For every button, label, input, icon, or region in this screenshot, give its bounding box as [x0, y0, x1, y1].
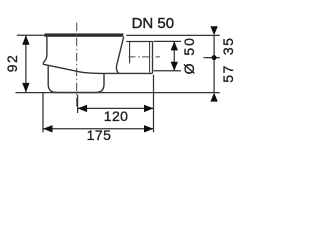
- dim 120: left extension line: [77, 95, 79, 113]
- svg-text:57: 57: [220, 64, 236, 82]
- dim 35/57: dimension line: [213, 35, 215, 92]
- dim 92: bottom extension line (long, to right dim): [16, 92, 220, 94]
- svg-text:35: 35: [220, 37, 236, 55]
- dim ø50: down arrow: [171, 62, 178, 71]
- outlet socket collar line: [129, 42, 131, 64]
- svg-text:120: 120: [104, 108, 129, 124]
- dim 92: top extension line: [17, 34, 45, 36]
- body right slanted edge: [116, 37, 123, 73]
- dim ø50: top extension line: [154, 40, 182, 42]
- dim 175: right arrow: [144, 125, 154, 132]
- dim 120: left arrow: [78, 105, 88, 112]
- drain body top grate bar: [45, 33, 124, 36]
- outlet pipe top line: [126, 41, 153, 43]
- extension line at grate level to right dimension: [126, 34, 220, 36]
- dim 120: dimension line: [78, 107, 154, 109]
- dim 120: right arrow: [144, 105, 154, 112]
- svg-text:DN 50: DN 50: [132, 15, 175, 32]
- dim 35/57: axis dot: [212, 55, 217, 60]
- pipe center line (dash-dot): [129, 56, 161, 58]
- dim 175: left extension line: [42, 93, 44, 132]
- svg-text:175: 175: [87, 127, 112, 143]
- dim 35/57: top arrow (points down): [210, 26, 217, 35]
- dim 92: top arrow: [22, 35, 29, 45]
- dim 35/57: bottom arrow (points up): [210, 93, 217, 102]
- dim 35/57: level mark at pipe axis: [204, 57, 220, 59]
- pipe end chamfer line: [149, 42, 151, 73]
- svg-text:92: 92: [4, 54, 20, 72]
- dim ø50: stem: [173, 41, 175, 70]
- dim 175: left arrow: [43, 125, 53, 132]
- dim ø50: up arrow: [171, 41, 178, 50]
- body left edge and sloped channel bottom: [43, 37, 152, 74]
- dim 175: dimension line: [43, 128, 154, 130]
- pipe end face: [152, 42, 154, 74]
- svg-text:Ø 50: Ø 50: [181, 36, 197, 74]
- odour trap (lower box): [48, 66, 104, 93]
- dim 92: bottom arrow: [22, 83, 29, 93]
- dim 175: right extension line: [153, 75, 155, 133]
- vertical center line (dash-dot) through trap: [76, 23, 78, 107]
- dim ø50: bottom extension line: [154, 70, 182, 72]
- dim 92: dimension line: [25, 35, 27, 92]
